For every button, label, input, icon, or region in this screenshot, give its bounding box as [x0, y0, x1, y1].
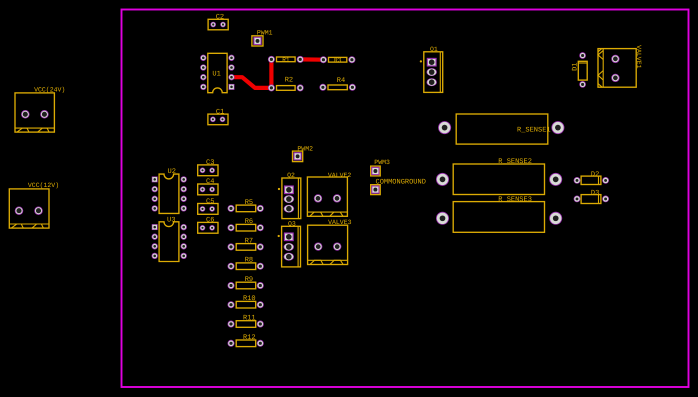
- Q1 pin 1 square pad: [427, 58, 437, 67]
- svg-text:VCC(12V): VCC(12V): [28, 182, 59, 189]
- svg-text:U2: U2: [168, 168, 176, 176]
- connector VCC(24V): [15, 86, 65, 132]
- resistor R8: [228, 257, 264, 270]
- connector VALVE1: [598, 45, 642, 87]
- connector VALVE3: [308, 219, 352, 265]
- resistor R6: [228, 218, 264, 231]
- resistor R12: [228, 334, 264, 347]
- U3 pin 1 square pad: [152, 224, 158, 230]
- capacitor C5: [198, 198, 218, 214]
- pad PWM2: [293, 145, 314, 161]
- op-amp U1: [200, 53, 235, 92]
- pad COMMONGROUND: [371, 178, 426, 194]
- resistor R10: [228, 295, 264, 308]
- svg-text:R_SENSE1: R_SENSE1: [517, 126, 551, 134]
- diode D3: [574, 189, 609, 203]
- resistor R_SENSE2: [436, 158, 562, 195]
- svg-text:COMMONGROUND: COMMONGROUND: [376, 178, 426, 186]
- Q3 pin 1 mark: [278, 235, 280, 237]
- svg-text:R3: R3: [334, 57, 342, 64]
- svg-text:R4: R4: [337, 77, 345, 85]
- Q1 pin 1 mark: [420, 60, 422, 62]
- board outline: [122, 10, 689, 388]
- svg-text:R_SENSE2: R_SENSE2: [498, 158, 532, 166]
- Q2 pin 1 mark: [278, 188, 280, 190]
- transistor Q1: [420, 46, 443, 93]
- pad PWM3: [371, 159, 390, 176]
- resistor R3: [320, 56, 356, 64]
- resistor R5: [228, 199, 264, 212]
- resistor R4: [319, 77, 356, 91]
- IC U3: [152, 216, 187, 261]
- U2 pin 1 square pad: [152, 176, 158, 182]
- connector VCC(12V): [9, 182, 59, 228]
- U1 pin 1 square pad: [229, 84, 235, 90]
- resistor R7: [228, 237, 264, 250]
- wire R1 left pad to R2 left pad: [269, 59, 273, 88]
- svg-text:U1: U1: [212, 70, 220, 78]
- resistor R_SENSE3: [436, 196, 562, 232]
- transistor Q3: [278, 220, 301, 267]
- svg-text:R1: R1: [282, 57, 290, 64]
- wire R1 right pad to R3 left pad: [300, 57, 323, 61]
- svg-text:C6: C6: [206, 217, 214, 225]
- svg-text:R_SENSE3: R_SENSE3: [498, 196, 532, 204]
- svg-text:U3: U3: [167, 216, 175, 224]
- resistor R9: [228, 276, 264, 289]
- capacitor C4: [198, 178, 218, 195]
- transistor Q2: [278, 172, 301, 219]
- svg-text:PWM3: PWM3: [374, 159, 390, 166]
- IC U2: [152, 168, 187, 213]
- svg-text:C4: C4: [206, 178, 214, 186]
- svg-text:C1: C1: [216, 108, 224, 116]
- Q2 pin 1 square pad: [284, 185, 294, 194]
- svg-text:C2: C2: [216, 14, 224, 22]
- capacitor C3: [198, 159, 218, 176]
- resistor R11: [228, 315, 264, 328]
- diode D1: [571, 52, 587, 88]
- wire U1 pin3 to R2 left pad: [232, 77, 272, 88]
- pad PWM1: [252, 30, 273, 47]
- resistor R1: [268, 56, 304, 64]
- resistor R_SENSE: [438, 114, 564, 144]
- capacitor C6: [198, 217, 218, 234]
- capacitor C1: [208, 108, 228, 124]
- svg-text:C5: C5: [206, 198, 214, 206]
- capacitor C2: [208, 14, 228, 30]
- Q3 pin 1 square pad: [284, 232, 294, 241]
- diode D2: [574, 171, 609, 185]
- resistor R2: [268, 76, 304, 91]
- connector VALVE2: [307, 172, 351, 217]
- svg-text:R2: R2: [285, 76, 293, 84]
- svg-text:C3: C3: [206, 159, 214, 167]
